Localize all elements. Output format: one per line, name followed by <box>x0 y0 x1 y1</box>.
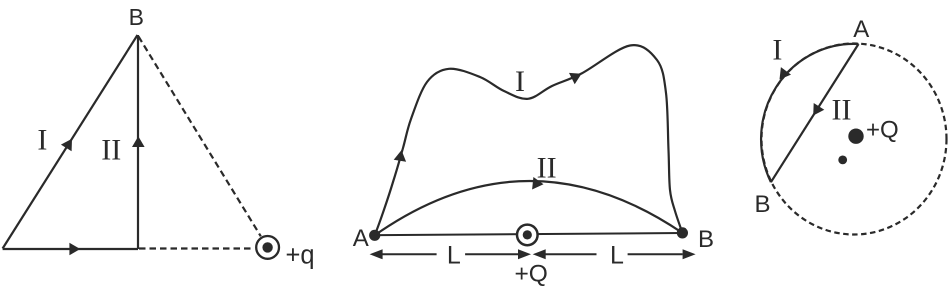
svg-text:I: I <box>37 124 47 157</box>
point B dot <box>677 227 688 238</box>
charge +Q symbol at centre of AB (circle with dot) <box>517 225 538 246</box>
solid arc path I from A to B <box>761 44 858 182</box>
svg-text:B: B <box>698 226 714 253</box>
svg-text:B: B <box>755 191 771 218</box>
arrowhead on path I <box>61 139 72 152</box>
path II vertical line from apex B to base <box>137 35 139 249</box>
svg-text:+Q: +Q <box>515 261 548 288</box>
arrowhead on path I top right <box>569 73 582 84</box>
svg-text:I: I <box>772 34 782 67</box>
middle figure: line from A to B <box>375 233 682 235</box>
small dot below +Q <box>838 156 847 165</box>
svg-text:II: II <box>537 151 557 184</box>
chord path II from A to B <box>771 44 859 182</box>
arrowhead on chord path II <box>813 103 824 116</box>
svg-text:+Q: +Q <box>866 116 899 143</box>
svg-text:II: II <box>101 133 121 166</box>
svg-text:A: A <box>853 16 869 43</box>
svg-text:A: A <box>353 225 369 252</box>
arrowhead on arc path I <box>780 67 792 79</box>
dashed hypotenuse from B to charge +q <box>139 37 261 237</box>
path II arc from A to B <box>375 181 683 235</box>
arrowhead on base line <box>69 243 80 256</box>
svg-text:+q: +q <box>286 242 315 270</box>
arrowhead on path II <box>532 177 543 190</box>
svg-text:II: II <box>832 94 852 127</box>
base line of triangle <box>3 248 138 250</box>
svg-text:I: I <box>515 65 525 98</box>
charge +q symbol (circle with dot) <box>256 236 279 259</box>
svg-text:L: L <box>447 241 461 269</box>
dashed base extension to charge +q <box>139 247 254 249</box>
svg-text:L: L <box>610 241 624 269</box>
arrowhead on path I left rise <box>394 150 406 162</box>
charge +Q dot <box>848 129 863 144</box>
right figure: dashed circle <box>762 44 947 235</box>
left figure: path I slanted line from bottom-left corner to apex B <box>3 35 138 249</box>
point A dot <box>369 230 380 241</box>
path I wavy curve from A over the top to B <box>375 45 683 235</box>
dimension line L right <box>546 253 597 255</box>
dimension line L left <box>382 253 437 255</box>
svg-text:B: B <box>129 4 144 30</box>
arrowhead on path II <box>132 136 145 147</box>
